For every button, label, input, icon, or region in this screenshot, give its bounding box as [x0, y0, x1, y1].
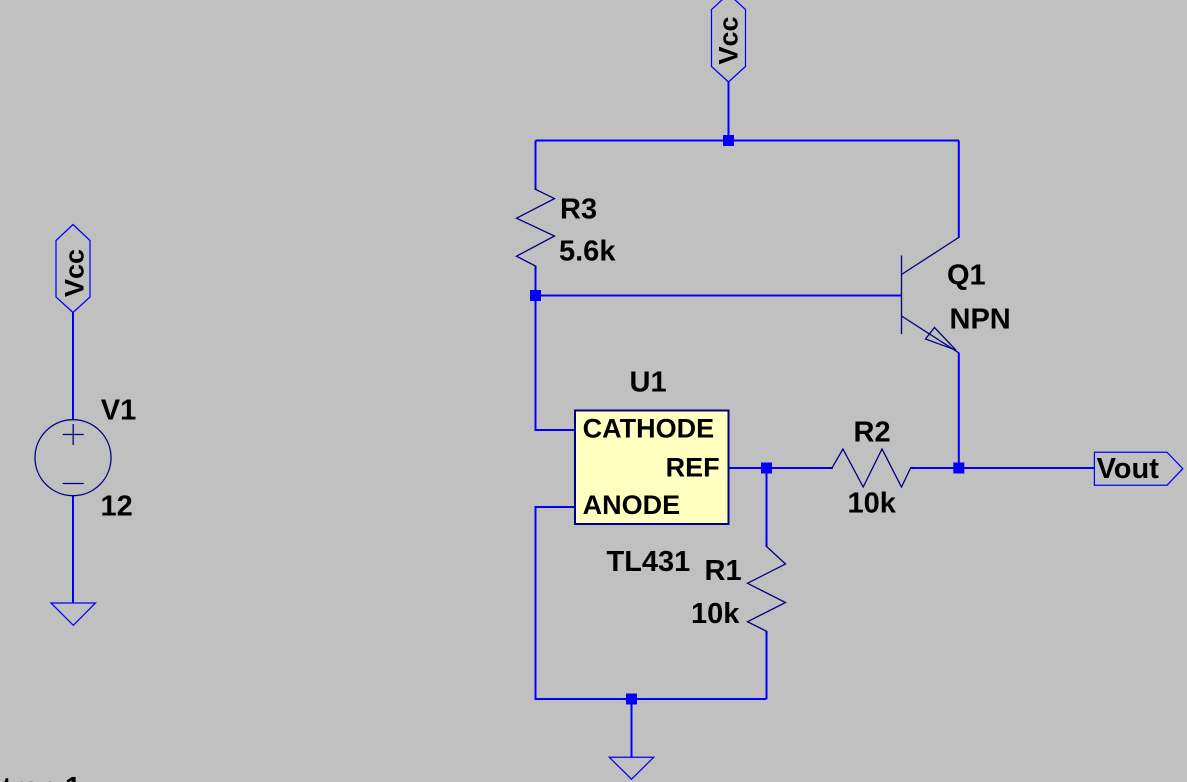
svg-text:TL431: TL431 [607, 546, 691, 578]
svg-text:12: 12 [101, 491, 133, 523]
svg-text:10k: 10k [691, 598, 740, 630]
svg-text:.tran 1: .tran 1 [0, 772, 81, 782]
svg-text:Vout: Vout [1097, 453, 1160, 485]
svg-text:10k: 10k [848, 488, 897, 520]
svg-text:R3: R3 [560, 194, 597, 226]
svg-text:U1: U1 [630, 366, 667, 398]
svg-text:V1: V1 [101, 395, 136, 427]
svg-text:Q1: Q1 [947, 260, 986, 292]
svg-text:Vcc: Vcc [714, 16, 744, 64]
svg-text:ANODE: ANODE [583, 490, 681, 520]
svg-text:R1: R1 [705, 555, 742, 587]
svg-text:CATHODE: CATHODE [583, 414, 715, 444]
svg-text:REF: REF [666, 453, 720, 483]
svg-text:R2: R2 [854, 417, 891, 449]
svg-text:NPN: NPN [950, 304, 1011, 336]
svg-text:5.6k: 5.6k [559, 236, 616, 268]
svg-text:Vcc: Vcc [60, 249, 90, 297]
